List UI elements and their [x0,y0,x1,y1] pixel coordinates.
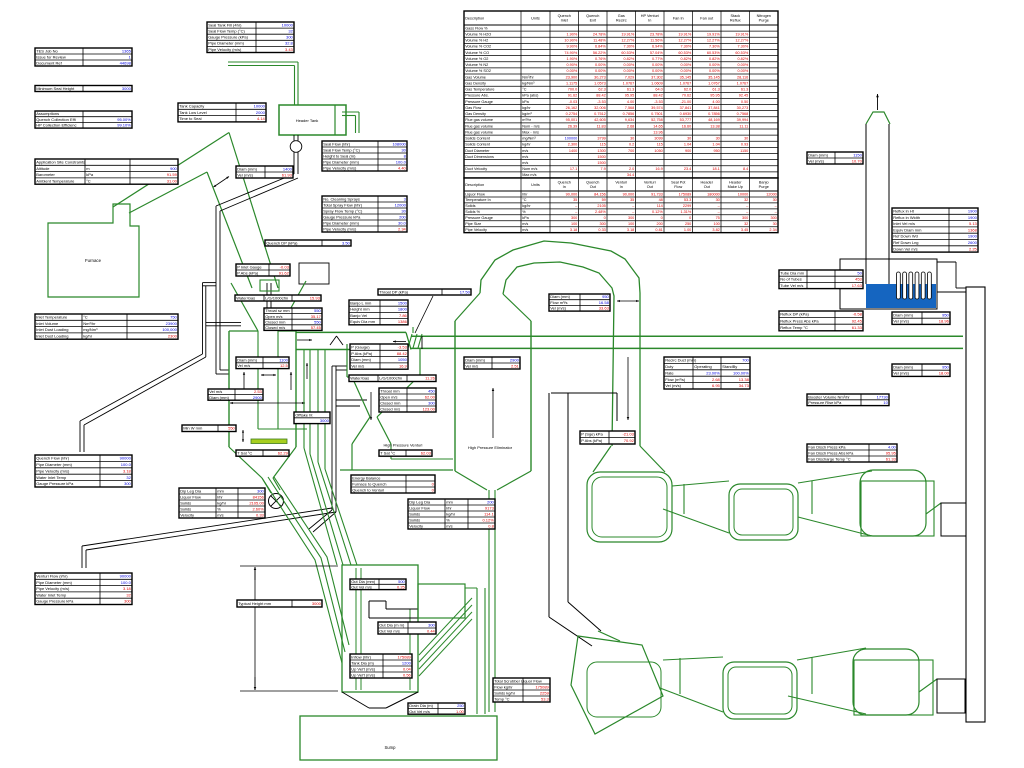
svg-text:0.7856: 0.7856 [708,112,720,116]
svg-text:30: 30 [773,222,777,226]
svg-text:950: 950 [942,312,949,317]
svg-text:10000: 10000 [282,22,294,27]
svg-text:Barometer: Barometer [36,172,55,177]
svg-text:17.63: 17.63 [852,283,863,288]
svg-text:Recirc: Recirc [616,18,627,22]
svg-text:Application Site Constraints: Application Site Constraints [36,160,85,165]
svg-text:Tube Dia mm: Tube Dia mm [780,270,805,275]
svg-text:Water Inlet Temp: Water Inlet Temp [36,592,67,597]
svg-text:2.60%: 2.60% [252,506,264,511]
svg-text:100: 100 [571,222,577,226]
svg-text:Units: Units [531,183,540,187]
svg-text:35,145: 35,145 [680,75,692,79]
svg-text:-0.03: -0.03 [280,264,290,269]
svg-text:Fan out: Fan out [700,16,714,20]
svg-text:11.11: 11.11 [739,124,748,128]
svg-text:Out Vel m/s: Out Vel m/s [379,628,400,633]
svg-text:250: 250 [457,703,464,708]
svg-text:-3.53: -3.53 [398,345,408,350]
svg-text:l/hr: l/hr [522,192,528,196]
svg-text:37,841: 37,841 [708,106,720,110]
svg-text:0.2: 0.2 [629,143,634,147]
svg-text:34.73: 34.73 [739,383,750,388]
svg-text:115: 115 [600,143,606,147]
svg-text:Nm³/hr: Nm³/hr [522,75,534,79]
svg-text:2.53: 2.53 [254,389,263,394]
svg-text:Furnace to Quench: Furnace to Quench [352,481,386,486]
svg-text:kg/hr: kg/hr [446,511,456,516]
svg-text:0.25: 0.25 [397,584,406,589]
svg-text:0.7501: 0.7501 [651,112,663,116]
svg-text:550: 550 [228,426,235,431]
svg-text:70.92: 70.92 [624,438,635,443]
svg-text:Flow kg/hr: Flow kg/hr [494,684,513,689]
svg-text:1365: 1365 [122,48,132,53]
svg-text:100.00%: 100.00% [733,370,749,375]
svg-text:Pipe Velocity (m/s): Pipe Velocity (m/s) [208,47,242,52]
svg-text:35,145: 35,145 [708,75,720,79]
svg-text:12.27%: 12.27% [707,39,721,43]
svg-text:1050: 1050 [654,149,662,153]
svg-text:10.90%: 10.90% [564,39,578,43]
svg-text:0.7856: 0.7856 [623,112,635,116]
svg-text:32,006: 32,006 [594,106,606,110]
svg-text:1150: 1150 [853,152,862,157]
svg-text:950: 950 [713,149,719,153]
svg-text:Pressure Gauge: Pressure Gauge [465,216,493,220]
svg-text:Quench to Venturi: Quench to Venturi [352,487,384,492]
svg-text:Spray Flow Temp (°C): Spray Flow Temp (°C) [323,208,363,213]
svg-text:Flow: Flow [674,185,682,189]
svg-text:kg/hr: kg/hr [217,500,227,505]
svg-text:0.33: 0.33 [256,512,265,517]
svg-text:18.1: 18.1 [712,167,719,171]
svg-text:3.43: 3.43 [285,47,294,52]
svg-text:300: 300 [124,481,131,486]
svg-text:kg/hr: kg/hr [83,333,93,338]
svg-text:Solids kg/hr: Solids kg/hr [494,690,516,695]
svg-text:30: 30 [401,147,406,152]
svg-text:m/s: m/s [522,222,528,226]
svg-text:Diam (mm): Diam (mm) [351,357,371,362]
svg-text:Total Spray Flow (l/hr): Total Spray Flow (l/hr) [323,202,363,207]
svg-text:39,574: 39,574 [651,106,663,110]
svg-text:2900: 2900 [510,357,520,362]
svg-text:-0.58: -0.58 [853,312,863,317]
svg-text:Volume % H2: Volume % H2 [465,39,488,43]
svg-text:Equiv Diam mm: Equiv Diam mm [893,227,922,232]
svg-text:Booster Volume Nm³/hr: Booster Volume Nm³/hr [808,394,850,399]
svg-text:100.0: 100.0 [396,159,407,164]
svg-text:37,841: 37,841 [680,106,692,110]
svg-text:0: 0 [661,216,663,220]
svg-text:1900: 1900 [968,215,978,220]
svg-text:1900: 1900 [968,234,978,239]
svg-text:Min W mm: Min W mm [183,426,203,431]
svg-text:Throat sz mm: Throat sz mm [265,308,290,313]
svg-text:92.45: 92.45 [739,94,749,98]
svg-text:Solids Content: Solids Content [465,137,491,141]
svg-text:1300: 1300 [597,149,605,153]
svg-text:3.45: 3.45 [741,228,748,232]
svg-text:35.17: 35.17 [311,314,322,319]
svg-text:0.77%: 0.77% [652,57,663,61]
svg-text:100,000: 100,000 [162,327,177,332]
svg-text:Temperature In: Temperature In [465,198,491,202]
svg-text:T Sat °C: T Sat °C [380,450,395,455]
svg-text:88.42: 88.42 [653,94,663,98]
svg-text:0.12%: 0.12% [482,517,494,522]
svg-text:Open m/s: Open m/s [380,394,397,399]
svg-text:2600: 2600 [968,240,978,245]
svg-text:Duct Velocity: Duct Velocity [465,167,487,171]
svg-text:2105: 2105 [597,204,605,208]
svg-text:30,273: 30,273 [737,106,749,110]
svg-text:61.93: 61.93 [282,172,293,177]
svg-text:Liquor Flow: Liquor Flow [409,505,430,510]
svg-text:Tube Vel m/s: Tube Vel m/s [780,283,803,288]
svg-text:23.4: 23.4 [684,167,691,171]
svg-text:250: 250 [685,222,691,226]
svg-text:T Sat °C: T Sat °C [237,450,252,455]
svg-text:175089: 175089 [397,654,411,659]
svg-text:0.00%: 0.00% [624,63,635,67]
svg-text:48,169: 48,169 [708,118,720,122]
svg-text:Volume % N2: Volume % N2 [465,63,488,67]
svg-text:m/s: m/s [522,161,528,165]
svg-text:0.00%: 0.00% [567,69,578,73]
svg-text:950: 950 [942,364,949,369]
svg-text:Out: Out [647,185,654,189]
svg-text:Diam (mm): Diam (mm) [237,166,257,171]
svg-text:Fan Disch Press Abs kPa: Fan Disch Press Abs kPa [808,450,854,455]
svg-text:84,156: 84,156 [594,192,606,196]
svg-text:30,273: 30,273 [594,75,606,79]
svg-text:l/hr: l/hr [217,494,223,499]
svg-text:300: 300 [428,622,435,627]
svg-text:m/s: m/s [522,155,528,159]
svg-text:30: 30 [687,137,691,141]
svg-text:kPa (abs): kPa (abs) [522,94,539,98]
svg-text:Pipe Velocity (m/s): Pipe Velocity (m/s) [323,165,357,170]
svg-text:3.82: 3.82 [712,228,719,232]
svg-text:100.0: 100.0 [121,462,132,467]
svg-text:mg/Nm³: mg/Nm³ [83,327,98,332]
svg-text:0.82%: 0.82% [681,57,692,61]
svg-text:90,000: 90,000 [623,192,635,196]
svg-text:2105.00: 2105.00 [249,500,264,505]
svg-text:17730: 17730 [877,394,889,399]
svg-text:1400: 1400 [569,149,577,153]
svg-text:0.00%: 0.00% [709,63,720,67]
svg-text:Energy Balance: Energy Balance [352,475,381,480]
svg-text:Diam (mm): Diam (mm) [808,152,828,157]
svg-text:175089: 175089 [535,684,549,689]
svg-text:1.90%: 1.90% [567,32,578,36]
svg-text:0.04: 0.04 [403,666,412,671]
svg-text:2.48%: 2.48% [595,210,606,214]
svg-text:Seal Flow Temp (°C): Seal Flow Temp (°C) [323,147,360,152]
svg-text:100: 100 [713,222,719,226]
svg-text:7.30%: 7.30% [681,45,692,49]
svg-text:2.25: 2.25 [969,246,978,251]
svg-text:Flow (m³/s): Flow (m³/s) [665,377,686,382]
svg-text:32: 32 [288,29,293,34]
svg-text:60.53%: 60.53% [707,51,721,55]
svg-text:Closed mm: Closed mm [265,319,286,324]
svg-text:23.78%: 23.78% [650,32,664,36]
svg-text:Inlet: Inlet [561,18,569,22]
svg-text:Solids: Solids [465,204,475,208]
svg-text:Tank Dia (m): Tank Dia (m) [351,660,374,665]
svg-text:Total Scrubber Liquor Flow: Total Scrubber Liquor Flow [494,678,542,683]
svg-text:No of Tubes: No of Tubes [780,277,802,282]
svg-text:Pipe Diameter (mm): Pipe Diameter (mm) [323,159,359,164]
svg-text:0.00%: 0.00% [681,69,692,73]
svg-text:Closed mm: Closed mm [380,400,401,405]
svg-text:Diam (mm): Diam (mm) [465,357,485,362]
svg-text:Duty: Duty [665,364,673,369]
svg-text:Vel (m/s): Vel (m/s) [665,383,681,388]
svg-text:0.93: 0.93 [741,143,748,147]
svg-text:175089: 175089 [679,192,692,196]
svg-text:Duct Diameter: Duct Diameter [465,149,490,153]
svg-text:11.83: 11.83 [597,124,606,128]
svg-text:Out: Out [590,185,597,189]
svg-text:Pipe Size: Pipe Size [465,222,481,226]
svg-text:3000: 3000 [122,86,132,91]
svg-text:300: 300 [599,222,605,226]
svg-text:95.95: 95.95 [886,450,897,455]
svg-text:300: 300 [628,216,634,220]
svg-text:-3.53: -3.53 [597,100,606,104]
svg-text:19.91%: 19.91% [735,32,749,36]
svg-text:-0.03: -0.03 [569,100,578,104]
svg-text:0.00%: 0.00% [652,63,663,67]
svg-text:Reflux Temp °C: Reflux Temp °C [780,325,808,330]
svg-text:19.91%: 19.91% [678,32,692,36]
svg-text:kg/m³: kg/m³ [522,112,532,116]
svg-text:0.8: 0.8 [488,523,494,528]
svg-text:kg/Nm³: kg/Nm³ [522,81,535,85]
svg-text:Reflux Press Abs kPa: Reflux Press Abs kPa [780,318,819,323]
svg-text:23.00%: 23.00% [706,370,720,375]
svg-text:1368: 1368 [968,227,978,232]
svg-text:Banjo Vel: Banjo Vel [350,313,367,318]
svg-text:Gauge Pressure (kPa): Gauge Pressure (kPa) [208,35,248,40]
svg-text:2.34: 2.34 [769,228,776,232]
svg-text:Temp °C: Temp °C [494,696,509,701]
svg-text:18.00: 18.00 [939,371,950,376]
svg-text:0.7512: 0.7512 [594,112,606,116]
svg-text:0: 0 [604,216,606,220]
svg-text:31.00: 31.00 [167,178,178,183]
svg-text:Furnace: Furnace [85,258,102,263]
svg-text:Duct Dimensions: Duct Dimensions [465,155,494,159]
svg-text:P Inlet Gauge: P Inlet Gauge [237,264,262,269]
svg-text:Velocity: Velocity [180,512,194,517]
svg-text:No. Cleaning Sprays: No. Cleaning Sprays [323,196,360,201]
svg-text:53.3: 53.3 [541,696,550,701]
svg-text:300: 300 [742,216,748,220]
svg-text:Seal Flow Temp (°C): Seal Flow Temp (°C) [208,29,245,34]
svg-text:Out Dia (m m): Out Dia (m m) [379,622,405,627]
svg-text:TES Job No: TES Job No [36,48,58,53]
svg-text:16.9: 16.9 [399,363,408,368]
svg-text:Volume % H2O: Volume % H2O [465,32,491,36]
svg-text:Document Ref: Document Ref [36,60,62,65]
svg-text:Pressure Abs.: Pressure Abs. [465,94,489,98]
svg-text:11.56%: 11.56% [650,39,663,43]
svg-text:°C: °C [522,88,527,92]
svg-text:60.53%: 60.53% [678,51,692,55]
svg-text:4.00: 4.00 [712,100,719,104]
svg-text:88.42: 88.42 [596,94,606,98]
svg-text:450: 450 [428,388,435,393]
svg-text:2.0: 2.0 [629,167,634,171]
svg-text:2.68: 2.68 [627,124,634,128]
svg-text:8.4: 8.4 [743,167,748,171]
svg-text:Recirc Duct (mm): Recirc Duct (mm) [665,358,697,363]
svg-text:0.82%: 0.82% [624,57,635,61]
svg-text:1.0767: 1.0767 [737,81,749,85]
svg-text:61.3: 61.3 [627,88,634,92]
svg-text:100.0: 100.0 [121,580,132,585]
svg-text:Inlet Vel m/s: Inlet Vel m/s [893,221,915,226]
svg-text:Liquor Flow: Liquor Flow [465,192,485,196]
svg-text:Flue gas volume: Flue gas volume [465,124,493,128]
svg-text:26,162: 26,162 [566,106,578,110]
svg-text:In: In [563,185,566,189]
svg-text:12000: 12000 [395,202,407,207]
svg-text:Out Vel m/s: Out Vel m/s [409,709,430,714]
svg-text:18.96: 18.96 [939,319,950,324]
svg-text:Gauge Pressure kPa: Gauge Pressure kPa [36,481,74,486]
svg-text:-3.53: -3.53 [654,100,663,104]
svg-text:Seal Tank Fill (4hr): Seal Tank Fill (4hr) [208,22,242,27]
svg-text:Sump: Sump [385,745,397,750]
svg-text:300: 300 [124,599,131,604]
svg-text:17.50: 17.50 [460,289,471,294]
svg-text:90000: 90000 [120,574,132,579]
svg-text:StandBy: StandBy [722,364,737,369]
svg-text:30: 30 [773,198,777,202]
svg-text:2300: 2300 [168,333,178,338]
svg-text:Gas Density: Gas Density [465,112,486,116]
svg-text:550: 550 [314,308,321,313]
svg-text:0.56: 0.56 [403,672,412,677]
svg-text:Vel m/s: Vel m/s [465,363,478,368]
svg-text:Time to Seal: Time to Seal [179,116,201,121]
svg-text:Ref Down Lng: Ref Down Lng [893,240,918,245]
svg-text:34.4: 34.4 [627,173,634,177]
svg-text:HP Collection Efficienc: HP Collection Efficienc [36,123,76,128]
svg-text:300: 300 [770,216,776,220]
svg-text:Gas Density: Gas Density [465,81,486,85]
svg-text:3000: 3000 [312,601,322,606]
svg-text:1.0767: 1.0767 [708,81,720,85]
svg-text:57.45: 57.45 [311,325,322,330]
svg-text:Reflux: Reflux [730,18,741,22]
svg-text:9,634: 9,634 [625,118,635,122]
svg-text:1.0767: 1.0767 [680,81,692,85]
svg-text:88.42: 88.42 [397,351,408,356]
svg-text:700: 700 [742,358,749,363]
svg-text:56.22%: 56.22% [593,51,607,55]
svg-text:12000: 12000 [766,192,777,196]
svg-text:30: 30 [716,137,720,141]
svg-text:kg/hr: kg/hr [522,106,531,110]
svg-text:Pipe Velocity (m/s): Pipe Velocity (m/s) [323,226,357,231]
svg-text:0.81: 0.81 [655,228,662,232]
svg-text:Gass Flow %: Gass Flow % [465,26,488,30]
svg-text:37,302: 37,302 [651,75,663,79]
svg-text:28,116: 28,116 [737,75,748,79]
svg-text:1.00: 1.00 [684,228,691,232]
svg-text:15.93: 15.93 [310,295,321,300]
svg-text:Water Inlet Temp: Water Inlet Temp [36,475,67,480]
svg-text:500: 500 [398,579,405,584]
svg-text:Exit: Exit [590,18,597,22]
svg-text:Pipe Diameter (mm): Pipe Diameter (mm) [323,220,359,225]
svg-text:95.00%: 95.00% [117,117,131,122]
svg-text:11.26: 11.26 [425,376,435,381]
svg-text:92.45: 92.45 [852,318,863,323]
svg-text:0.00%: 0.00% [624,69,635,73]
svg-text:Out: Out [704,185,711,189]
svg-text:114.1: 114.1 [484,511,494,516]
svg-text:95.95: 95.95 [710,94,720,98]
svg-text:95,001: 95,001 [566,118,578,122]
svg-text:1900: 1900 [968,209,978,214]
svg-text:2,300: 2,300 [568,143,578,147]
svg-text:1386: 1386 [398,319,408,324]
svg-text:Make Up: Make Up [728,185,743,189]
svg-text:0.00%: 0.00% [709,69,720,73]
svg-text:23,900: 23,900 [566,75,578,79]
svg-text:Purge: Purge [759,18,769,22]
svg-text:Solids: Solids [180,506,191,511]
svg-text:Quench DP (kPa): Quench DP (kPa) [266,240,298,245]
svg-text:High Pressure Eliminator: High Pressure Eliminator [468,445,513,450]
svg-text:900: 900 [170,166,177,171]
svg-text:Assumptions: Assumptions [36,111,59,116]
svg-text:7.30%: 7.30% [709,45,720,49]
svg-text:Pressure Rise kPa: Pressure Rise kPa [808,400,842,405]
svg-text:100: 100 [628,222,634,226]
svg-text:Down Vel m/s: Down Vel m/s [893,246,917,251]
svg-text:Solids: Solids [409,517,420,522]
svg-text:Inflow (l/hr): Inflow (l/hr) [351,654,371,659]
svg-text:Fan Disch Press kPa: Fan Disch Press kPa [808,444,846,449]
svg-text:Solids: Solids [180,500,191,505]
svg-text:1400: 1400 [283,166,293,171]
svg-text:2299: 2299 [683,204,691,208]
svg-text:57.04%: 57.04% [650,51,664,55]
svg-text:2000: 2000 [256,110,266,115]
svg-text:m/s: m/s [522,149,528,153]
svg-text:300: 300 [428,400,435,405]
svg-text:Out Dia (mm): Out Dia (mm) [351,579,376,584]
svg-text:-21.00: -21.00 [681,100,692,104]
svg-text:l/hr: l/hr [446,505,452,510]
svg-text:0.12%: 0.12% [652,210,663,214]
svg-text:7,029: 7,029 [625,75,635,79]
svg-text:114: 114 [657,204,663,208]
svg-text:19.91%: 19.91% [707,32,721,36]
svg-text:1500: 1500 [398,300,408,305]
svg-text:%: % [446,517,450,522]
